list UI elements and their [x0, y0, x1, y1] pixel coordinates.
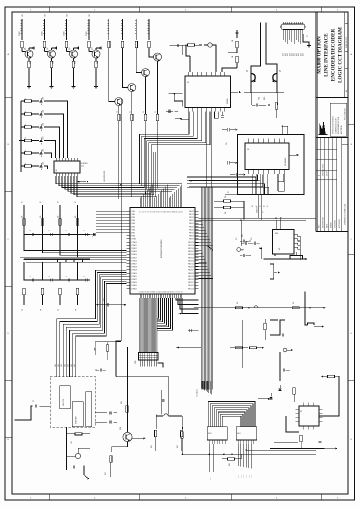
svg-text:R34: R34 [177, 445, 179, 448]
svg-text:10k: 10k [75, 215, 77, 218]
svg-text:SHEET 1 OF 1: SHEET 1 OF 1 [346, 37, 348, 48]
svg-text:ULN: ULN [81, 166, 84, 168]
svg-text:IN: IN [58, 202, 60, 203]
svg-text:R30: R30 [121, 401, 123, 404]
svg-text:PB12 40: PB12 40 [188, 248, 194, 250]
svg-text:MC145026: MC145026 [285, 158, 287, 166]
svg-text:DTMF MOD: DTMF MOD [76, 417, 78, 425]
svg-text:1k: 1k [25, 98, 27, 100]
svg-text:10k: 10k [40, 215, 42, 218]
svg-text:44: 44 [147, 211, 149, 213]
svg-text:12V: 12V [22, 14, 24, 17]
svg-text:LINE INTERFACE: LINE INTERFACE [323, 33, 329, 77]
svg-text:10k: 10k [58, 215, 60, 218]
svg-text:MUR: MUR [246, 475, 248, 478]
svg-text:C9: C9 [33, 400, 35, 402]
svg-text:PB0 28: PB0 28 [189, 211, 194, 213]
svg-text:60: 60 [154, 291, 156, 293]
svg-text:MUR: MUR [241, 475, 243, 478]
svg-text:54: 54 [143, 291, 145, 293]
svg-text:12V: 12V [67, 14, 69, 17]
svg-text:R13: R13 [97, 61, 99, 64]
svg-text:PB10 38: PB10 38 [188, 242, 194, 244]
svg-text:46: 46 [151, 211, 153, 213]
svg-text:U5: U5 [56, 169, 58, 171]
svg-text:70: 70 [172, 291, 174, 293]
svg-text:GND: GND [209, 477, 211, 480]
svg-text:PH 617 5594 0222: PH 617 5594 0222 [345, 108, 347, 120]
svg-text:MX800 OPTION: MX800 OPTION [316, 36, 322, 74]
svg-text:PB5 33: PB5 33 [189, 226, 194, 228]
svg-text:TP: TP [22, 309, 24, 311]
svg-text:C15: C15 [236, 237, 238, 240]
svg-text:64: 64 [161, 291, 163, 293]
svg-text:LS1: LS1 [71, 441, 73, 444]
svg-text:TP: TP [41, 309, 43, 311]
svg-text:C12: C12 [103, 298, 105, 301]
svg-text:Q8: Q8 [247, 70, 249, 72]
svg-text:U4: U4 [247, 149, 249, 151]
svg-text:LINE: LINE [58, 364, 60, 367]
svg-text:R33: R33 [151, 445, 153, 448]
svg-text:VT: VT [263, 211, 265, 213]
svg-text:PB9 37: PB9 37 [189, 239, 194, 241]
svg-text:1k: 1k [25, 163, 27, 165]
svg-text:R40: R40 [229, 463, 231, 466]
svg-text:LINE: LINE [71, 364, 73, 367]
svg-text:U6: U6 [279, 248, 281, 250]
svg-text:PB11 39: PB11 39 [188, 245, 194, 247]
svg-text:66: 66 [165, 291, 167, 293]
svg-text:MUR: MUR [243, 475, 245, 478]
svg-text:TP: TP [58, 309, 60, 311]
svg-text:CN2: CN2 [135, 361, 137, 364]
svg-text:Q4: Q4 [92, 48, 94, 50]
svg-text:PB8 36: PB8 36 [189, 236, 194, 238]
svg-text:CRITEC ELECTRONICS: CRITEC ELECTRONICS [333, 116, 335, 134]
svg-text:PB7 35: PB7 35 [189, 233, 194, 235]
svg-text:IN: IN [22, 202, 24, 203]
svg-text:LINE: LINE [64, 364, 66, 367]
svg-text:PB3 31: PB3 31 [189, 220, 194, 222]
svg-text:PB25 53: PB25 53 [188, 288, 194, 290]
svg-text:PB4 32: PB4 32 [189, 223, 194, 225]
svg-text:C20: C20 [242, 234, 244, 237]
svg-text:CHECKED: CHECKED [335, 219, 337, 228]
svg-text:PB23 51: PB23 51 [188, 282, 194, 284]
svg-text:MC68HC705C8FN: MC68HC705C8FN [161, 239, 163, 258]
svg-text:4051: 4051 [237, 433, 241, 435]
svg-text:1k: 1k [116, 111, 118, 113]
svg-text:MUR: MUR [251, 475, 253, 478]
svg-text:ULN2003: ULN2003 [81, 163, 88, 165]
svg-text:Q3: Q3 [69, 48, 71, 50]
svg-text:LOGIC CCT DIAGRAM: LOGIC CCT DIAGRAM [337, 27, 343, 83]
svg-text:10k: 10k [225, 211, 227, 214]
svg-text:2k2: 2k2 [226, 142, 228, 145]
svg-text:1k: 1k [25, 150, 27, 152]
svg-text:50: 50 [158, 211, 160, 213]
svg-text:47k: 47k [293, 301, 295, 304]
svg-text:DRAWING No MX800-LI-03: DRAWING No MX800-LI-03 [344, 204, 347, 225]
svg-text:1k: 1k [155, 111, 157, 113]
svg-text:IN: IN [40, 202, 42, 203]
svg-text:Q8: Q8 [280, 70, 282, 72]
svg-text:Q2: Q2 [47, 48, 49, 50]
svg-text:58: 58 [151, 291, 153, 293]
svg-text:42: 42 [143, 211, 145, 213]
svg-text:C16: C16 [251, 237, 253, 240]
svg-text:DESCRIPTION: DESCRIPTION [323, 216, 325, 228]
svg-text:PB1 29: PB1 29 [189, 214, 194, 216]
svg-text:U9: U9 [300, 411, 302, 413]
svg-text:56: 56 [169, 211, 171, 213]
svg-text:R10: R10 [30, 61, 32, 64]
svg-text:J2: J2 [306, 36, 308, 38]
svg-text:LINE CTRL: LINE CTRL [63, 399, 65, 406]
svg-text:48: 48 [154, 211, 156, 213]
svg-text:12V: 12V [45, 14, 47, 17]
svg-text:4066: 4066 [275, 233, 278, 235]
svg-text:ENCODER/DECODER: ENCODER/DECODER [330, 29, 336, 82]
svg-text:10k: 10k [22, 215, 24, 218]
svg-text:LINE: LINE [61, 364, 63, 367]
svg-text:1k: 1k [25, 137, 27, 139]
svg-text:LINE: LINE [68, 364, 70, 367]
svg-text:PB6 34: PB6 34 [189, 229, 194, 231]
svg-text:MX009: MX009 [227, 99, 229, 104]
svg-text:U2: U2 [187, 82, 189, 84]
svg-text:47k: 47k [237, 301, 239, 304]
svg-text:R31: R31 [105, 472, 107, 475]
svg-text:58: 58 [172, 211, 174, 213]
svg-text:12V: 12V [89, 14, 91, 17]
svg-text:Q1: Q1 [25, 48, 27, 50]
svg-text:10/7/97: 10/7/97 [327, 171, 329, 176]
svg-text:1k: 1k [25, 124, 27, 126]
svg-text:LED DRIVERS: LED DRIVERS [104, 170, 106, 182]
svg-text:10k: 10k [225, 195, 227, 198]
svg-text:1k: 1k [25, 111, 27, 113]
svg-text:PB2 30: PB2 30 [189, 217, 194, 219]
svg-text:A3: A3 [345, 90, 348, 92]
svg-text:1k: 1k [129, 111, 131, 113]
svg-text:62: 62 [158, 291, 160, 293]
svg-text:1k: 1k [143, 111, 145, 113]
svg-text:R11: R11 [53, 61, 55, 64]
svg-text:52: 52 [161, 211, 163, 213]
svg-text:LINE: LINE [55, 364, 57, 367]
svg-text:a: a [92, 236, 94, 237]
svg-text:SIG: SIG [196, 395, 198, 397]
svg-text:24: 24 [227, 192, 229, 194]
svg-text:54: 54 [165, 211, 167, 213]
svg-text:MUR: MUR [238, 475, 240, 478]
svg-text:68: 68 [169, 291, 171, 293]
svg-text:IN: IN [75, 202, 77, 203]
svg-text:Q10: Q10 [120, 427, 122, 430]
svg-text:PB24 52: PB24 52 [188, 285, 194, 287]
svg-text:MUR: MUR [248, 475, 250, 478]
svg-text:LINE: LINE [74, 364, 76, 367]
svg-text:TP: TP [76, 309, 78, 311]
svg-text:R12: R12 [75, 61, 77, 64]
svg-text:4051: 4051 [208, 433, 212, 435]
svg-text:56: 56 [147, 291, 149, 293]
